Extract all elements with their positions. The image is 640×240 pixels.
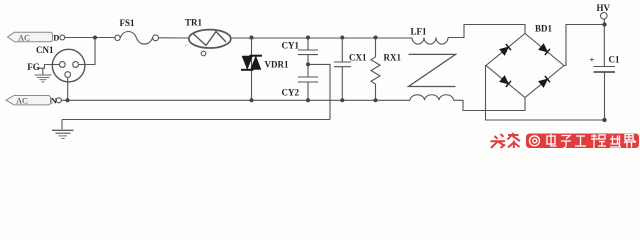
svg-text:CY2: CY2 [282, 88, 300, 98]
svg-text:t°: t° [185, 43, 188, 48]
svg-text:VDR1: VDR1 [265, 60, 289, 70]
svg-text:N: N [51, 95, 58, 105]
svg-text:AC: AC [18, 32, 30, 42]
svg-text:HV: HV [597, 3, 611, 13]
svg-text:CN1: CN1 [36, 45, 54, 55]
svg-text:RX1: RX1 [384, 53, 402, 63]
svg-text:+: + [590, 55, 595, 65]
svg-text:FS1: FS1 [120, 18, 136, 28]
svg-text:D: D [53, 32, 59, 42]
svg-text:CX1: CX1 [349, 53, 367, 63]
svg-text:TR1: TR1 [185, 18, 203, 28]
svg-text:C1: C1 [609, 55, 620, 65]
svg-text:CY1: CY1 [282, 41, 300, 51]
svg-text:FG: FG [27, 62, 40, 72]
svg-text:AC: AC [16, 96, 28, 106]
svg-text:LF1: LF1 [411, 27, 428, 37]
svg-text:BD1: BD1 [535, 23, 553, 33]
